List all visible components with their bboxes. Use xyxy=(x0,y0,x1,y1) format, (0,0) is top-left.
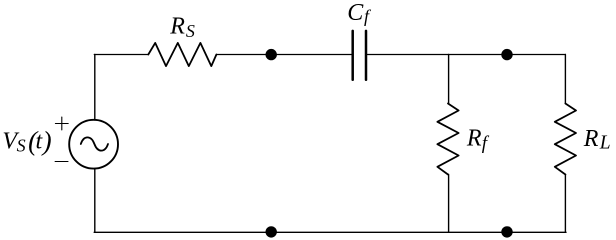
voltage source sine symbol xyxy=(81,137,108,150)
svg-text:RL: RL xyxy=(583,126,611,154)
wire RL top branch xyxy=(564,55,566,104)
resistor RL xyxy=(555,104,576,175)
wire Rf top branch xyxy=(448,55,450,104)
capacitor Cf xyxy=(353,31,366,80)
wire RL bottom branch xyxy=(564,175,566,233)
wire Rf bottom branch xyxy=(448,175,450,233)
bottom wire xyxy=(94,231,566,233)
wire source top vertical xyxy=(94,55,96,120)
node C bottom-left dot xyxy=(266,226,277,237)
node B output+ dot xyxy=(501,49,512,60)
wire Cf to right corner xyxy=(367,54,565,56)
minus polarity mark xyxy=(55,161,68,163)
resistor Rf xyxy=(437,104,458,175)
node A top dot xyxy=(266,49,277,60)
svg-text:Rf: Rf xyxy=(466,126,490,154)
wire top left horizontal xyxy=(94,54,148,56)
voltage source VS circle xyxy=(69,120,118,169)
plus polarity mark xyxy=(55,117,68,130)
wire source bottom vertical xyxy=(94,169,96,233)
svg-text:Cf: Cf xyxy=(347,0,372,26)
node D output- dot xyxy=(501,226,512,237)
wire RS to Cf xyxy=(216,54,351,56)
svg-text:RS: RS xyxy=(169,13,195,41)
resistor RS xyxy=(148,43,216,66)
svg-text:VS(t): VS(t) xyxy=(2,126,51,156)
